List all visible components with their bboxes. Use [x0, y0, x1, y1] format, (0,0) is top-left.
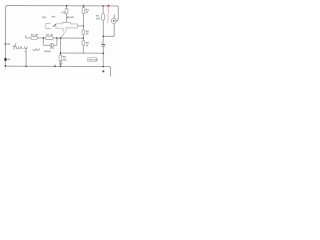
svg-text:10k: 10k: [96, 17, 101, 20]
svg-text:9V: 9V: [7, 58, 10, 61]
svg-text:47k: 47k: [61, 11, 66, 14]
svg-text:XT1: XT1: [50, 48, 55, 50]
svg-text:0V: 0V: [59, 62, 63, 66]
svg-text:32kHz: 32kHz: [44, 51, 51, 53]
svg-text:R2 1M: R2 1M: [46, 34, 53, 37]
svg-text:BC547: BC547: [67, 16, 75, 19]
svg-text:R1 1M: R1 1M: [31, 34, 38, 37]
svg-text:PP3 9V6: PP3 9V6: [88, 59, 98, 62]
svg-text:TR1: TR1: [42, 16, 47, 19]
svg-text:2k2: 2k2: [63, 58, 68, 61]
